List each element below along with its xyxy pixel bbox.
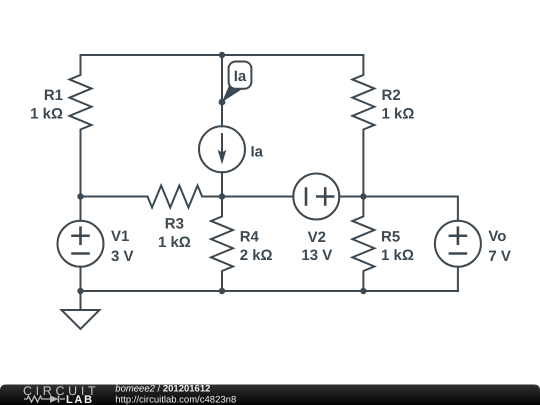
- resistor R3: [148, 186, 223, 208]
- svg-text:bomeee2 / 201201612: bomeee2 / 201201612: [115, 383, 210, 394]
- svg-text:V2: V2: [308, 229, 326, 246]
- wire bottom rail: [81, 290, 458, 292]
- logo resistor squiggle and diode: [24, 396, 65, 403]
- svg-text:7 V: 7 V: [488, 248, 511, 265]
- wire top stub to flag node: [221, 55, 223, 102]
- footer bar: [0, 385, 540, 405]
- svg-text:1 kΩ: 1 kΩ: [30, 106, 63, 123]
- resistor R4: [211, 197, 233, 292]
- ground: [62, 291, 100, 329]
- svg-text:Vo: Vo: [488, 228, 506, 245]
- wire middle right: [363, 197, 458, 221]
- node at top stub: [219, 52, 225, 58]
- svg-text:1 kΩ: 1 kΩ: [158, 234, 191, 251]
- node bottom-center: [219, 288, 225, 294]
- resistor R1: [70, 55, 92, 197]
- svg-text:R1: R1: [44, 87, 63, 104]
- svg-text:1 kΩ: 1 kΩ: [381, 247, 414, 264]
- node mid-center: [219, 193, 225, 199]
- node at flag attach: [219, 99, 226, 106]
- resistor R5: [352, 197, 374, 292]
- wire middle left: [81, 196, 148, 198]
- node bottom-right: [360, 288, 366, 294]
- current source Ia: [199, 102, 245, 197]
- node mid-right: [360, 193, 366, 199]
- svg-text:LAB: LAB: [66, 394, 94, 405]
- voltage source Vo: [435, 221, 481, 291]
- wire top rail: [81, 54, 364, 56]
- svg-text:http://circuitlab.com/c4823n8: http://circuitlab.com/c4823n8: [115, 394, 236, 405]
- svg-text:R3: R3: [165, 216, 184, 233]
- wire middle to V2: [222, 196, 293, 198]
- svg-text:1 kΩ: 1 kΩ: [382, 106, 415, 123]
- resistor R2: [352, 55, 374, 197]
- voltage source V2: [293, 174, 363, 220]
- voltage source V1: [58, 197, 104, 292]
- svg-text:V1: V1: [111, 228, 129, 245]
- svg-text:2 kΩ: 2 kΩ: [240, 247, 273, 264]
- svg-text:3 V: 3 V: [111, 248, 134, 265]
- svg-text:Ia: Ia: [251, 144, 264, 161]
- svg-text:R2: R2: [382, 87, 401, 104]
- node mid-left: [77, 193, 83, 199]
- svg-text:13 V: 13 V: [301, 247, 332, 264]
- svg-text:Ia: Ia: [234, 68, 247, 85]
- svg-text:R5: R5: [381, 229, 400, 246]
- flag Ia callout: [222, 62, 251, 103]
- svg-text:R4: R4: [240, 229, 260, 246]
- node bottom-left: [77, 288, 83, 294]
